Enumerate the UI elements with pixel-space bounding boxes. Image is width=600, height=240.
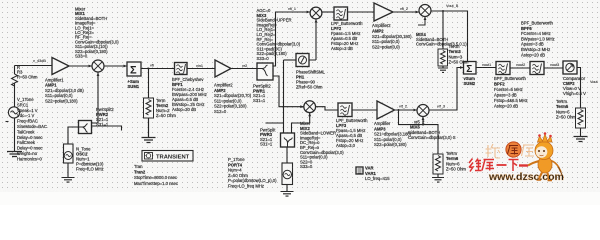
watermark red text yi [497,164,507,166]
term Term6 [433,154,443,174]
wire mix4 LO stub [418,17,425,26]
wire mix5 squarer loop [399,110,439,154]
splitter PWR2 [79,121,92,134]
wire lpf3 to amp5 [352,109,377,111]
label AMP5 [374,121,412,147]
splitter PWR3 [281,133,295,147]
label VAR1 [365,166,390,182]
term Term3 [438,49,448,66]
wire mix5 to sum2 riser [429,68,464,111]
junction node at sum1 output [148,68,150,70]
filter LPF3 [338,103,352,117]
arrow into mixer3 LO [315,19,318,23]
label LPF2 [331,21,363,51]
label OSC2 [76,147,104,172]
label AMP2 [214,83,252,115]
wire pwrsplit1 top out to mixer3 [273,12,310,66]
ground Term2 [142,138,156,143]
mixer MIX3 [310,7,322,19]
wire pwrsplit3 left out riser [283,60,285,133]
ground SRC1 [7,152,22,157]
junction node at amp5 output [398,109,400,111]
mixer MIX2 [304,101,316,113]
wire osc2 ground lead [67,163,69,177]
wire mix4 to sum2 drop [431,11,468,62]
summer SUM2 [464,62,477,75]
label MIX5 [408,120,456,141]
watermark badge circle [506,142,521,157]
arrow into mixer2 RF [300,105,304,108]
wire bpf2 to bpf6 [510,67,530,69]
wire mixer3 LO riser [309,19,316,60]
wire pwrsplit1 bottom out to mixer2 [273,76,304,107]
ground Term6 [432,178,444,183]
wire amp5 to mix5 [395,109,418,111]
ground Term5 [574,137,588,142]
label MIX3 [257,8,301,61]
label BPF6 [521,21,555,58]
arrow into sum1 input [124,65,128,68]
source OSC3 P_1Tone [282,163,293,185]
label AMP4 [372,23,412,50]
watermark ghost glyph 1 [486,144,501,158]
label SUM2 [464,76,476,86]
phase shifter PH1 [296,54,309,67]
label PH1 [296,70,326,90]
label BPF2 [494,76,528,109]
simulation block TRANSIENT [142,151,193,162]
wire amp4 to mix4 [393,11,419,13]
watermark badge glyph ku [508,146,519,155]
mixer MIX1 [92,60,104,72]
label Term3 [449,44,469,65]
filter LPF2 [334,7,348,20]
wire input rail [15,66,53,152]
scan noise overlay [0,0,600,192]
label Term2 [156,98,176,118]
term Term5 [576,108,586,128]
watermark red text xia [509,160,519,172]
wire osc3 to pwrsplit3 [286,147,288,163]
wire pwrsplit2 out2 stub [92,126,122,131]
mascot body [528,132,564,180]
label LPF3 [336,118,368,148]
amplifier AMP5 [377,101,395,119]
wire term3 branch [442,11,444,68]
wire bpf6 to cmp [544,67,563,69]
ground Term3 [438,68,448,72]
amplifier AMP1 [52,58,69,75]
label PWR1 [253,84,271,103]
wire mixer1 LO rail [92,73,99,124]
wire term2 ground lead [148,118,150,137]
arrow into mix4 RF [416,11,420,14]
junction node at mix4 output [442,10,444,12]
watermark ghost glyph 2 [522,145,535,156]
amplifier AMP4 [374,3,393,21]
VAR block VAR1 [356,167,363,174]
amplifier AMP2 [215,60,231,77]
wire amp2 to pwrsplit1 [231,68,257,70]
junction node mix5 LO [422,124,424,126]
source SRC1 V_1Tone [6,107,20,122]
source OSC2 N_Tone [64,144,74,163]
wire mixer1 to sum1 [104,65,127,67]
resistor R3 [12,74,18,86]
ground OSC3 [281,192,294,197]
wire term5 ground lead [580,128,582,136]
arrow into mix5 LO [422,117,425,121]
wire mixer2 to lpf3 [316,107,338,110]
wire sum2 to bpf2 [476,67,496,69]
arrow into mixer1 LO [97,73,100,77]
wire lpf2 to amp4 [348,11,374,13]
watermark red text ku [482,160,494,171]
watermark red text wei [469,159,482,172]
label SRC1 [17,97,47,161]
filter BPF1 [175,63,188,75]
wire amp1 to mixer1 [69,65,92,67]
arrow into mixer1 RF [89,65,93,68]
label CMP2 [563,76,586,96]
arrow into mix4 LO [424,17,427,21]
term Term2 [144,98,154,118]
ground OSC2 [62,178,75,183]
wire bpf1 to amp2 [187,68,215,70]
filter BPF6 [530,62,544,75]
wire osc3 ground lead [286,185,288,192]
label Term5 [556,99,576,120]
summer SUM1 [127,62,141,77]
label BPF1 [172,77,207,112]
wire osc2 to pwrsplit2 [68,127,79,144]
comparator CMP2 [563,61,577,74]
label MIX1 [75,7,119,59]
label MIX4 [416,32,467,47]
label MIX2 [300,121,344,169]
arrow into mix5 RF [414,109,418,112]
wire mix5 LO stub [422,117,424,125]
mixer MIX5 [417,105,429,117]
svg-text:www.dzsc.com: www.dzsc.com [488,171,564,183]
label Term6 [446,151,466,172]
mixer MIX4 [419,5,431,17]
label AMP1 [45,78,84,104]
watermark red dash [519,164,528,166]
arrow into mixer3 RF [307,11,311,14]
wire term6 ground lead [437,174,439,177]
wire mixer3 to lpf2 [322,11,334,13]
filter BPF2 [496,62,510,75]
label SUM1 [128,79,140,89]
wire cmp to term5 [577,68,581,109]
splitter PWR1 [257,63,273,80]
label PORT4 [228,157,277,189]
wire phase shifter input [284,59,297,61]
arrow into mixer2 LO [308,113,311,117]
label Tran [134,164,178,186]
wire pwrsplit3 right out to mixer2 LO [292,113,310,133]
wire sum1 to bpf1 [141,68,175,70]
label PWR3 [260,128,276,147]
label PWR2 [96,107,114,127]
arrow into sum2 input [460,66,464,69]
wire junction to term2 [148,69,150,138]
wire stub left of pwrsplit3 [266,122,284,124]
